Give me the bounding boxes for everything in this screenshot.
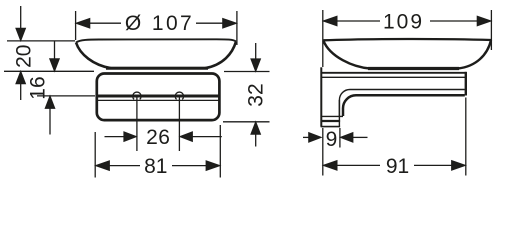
front view dish rim xyxy=(76,39,236,42)
side view dish rim xyxy=(323,39,491,40)
dimension 16: top arrow xyxy=(50,41,60,71)
dimension 9: right arrow xyxy=(340,133,367,143)
dimension diameter 107: arrows and line xyxy=(76,18,237,28)
dimension 26: extension ribs below bracket xyxy=(136,122,138,152)
side view shelf top line xyxy=(322,72,466,74)
dimension 26: right arrow xyxy=(180,132,222,142)
side view foot mid line xyxy=(321,120,341,122)
extension line dish top left xyxy=(7,40,75,42)
dimension 81: extension lines xyxy=(94,132,96,178)
svg-text:20: 20 xyxy=(13,45,36,68)
side view foot top line xyxy=(321,115,343,117)
front view dish bowl outline xyxy=(76,42,236,69)
dimension 26: left arrow xyxy=(105,132,137,142)
dimension 32: bottom arrow xyxy=(251,122,261,147)
svg-text:26: 26 xyxy=(146,126,170,149)
dimension 81: arrows and line xyxy=(96,161,220,171)
dimension 9: extension line right xyxy=(339,128,341,148)
side view shelf under inner line with fillet xyxy=(339,89,464,116)
dimension 20: top arrow xyxy=(16,6,26,41)
bracket seat thick line xyxy=(98,94,219,97)
svg-text:9: 9 xyxy=(326,128,338,151)
side view foot bottom line xyxy=(321,126,341,128)
dimension diameter 107: extension lines xyxy=(75,11,77,40)
dimension 109: arrows and line xyxy=(323,16,491,26)
dimension 9: left arrow xyxy=(303,133,321,143)
dimension 109: extension lines xyxy=(322,10,324,67)
svg-text:Ø 107: Ø 107 xyxy=(125,12,194,35)
dimension 32: top arrow xyxy=(251,43,261,71)
bracket lower thin line xyxy=(98,99,219,101)
bracket rib line left xyxy=(136,96,138,120)
side view wall post inner edge xyxy=(338,100,340,127)
clip circle left xyxy=(133,92,141,99)
bracket rib line right xyxy=(178,96,180,120)
side view shelf bottom thick line with fillet xyxy=(343,95,465,116)
side view shelf second line xyxy=(322,76,466,78)
front view wall bracket plate xyxy=(97,74,220,121)
svg-text:32: 32 xyxy=(245,83,268,106)
dimension 20: bottom arrow xyxy=(16,71,26,100)
extension line bracket top right xyxy=(224,71,270,73)
dimension 16: bottom arrow xyxy=(45,96,55,135)
side view dish bowl outline xyxy=(323,40,491,68)
extension line seat left xyxy=(37,95,95,97)
extension line bracket top left xyxy=(4,70,94,72)
svg-text:81: 81 xyxy=(144,155,167,178)
dimension 91: arrows and line xyxy=(323,161,465,171)
clip circle right xyxy=(175,92,183,99)
extension line bracket bottom right xyxy=(223,121,270,123)
svg-text:91: 91 xyxy=(386,155,409,178)
dimension 91: extension lines xyxy=(322,128,324,176)
svg-text:109: 109 xyxy=(383,11,424,34)
side view shelf front face xyxy=(465,72,467,96)
side view wall post left edge xyxy=(320,67,322,126)
svg-text:16: 16 xyxy=(27,76,50,99)
